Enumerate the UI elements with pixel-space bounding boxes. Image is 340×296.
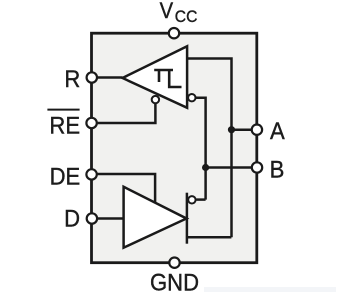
wire receiver input A: [187, 59, 231, 238]
pin DE: [86, 169, 96, 179]
svg-text:CC: CC: [175, 7, 198, 26]
wire R output: [92, 76, 123, 79]
svg-text:DE: DE: [50, 162, 81, 189]
receiver U1: [123, 46, 188, 108]
wire DE enable: [92, 174, 156, 204]
hysteresis symbol: [154, 70, 181, 87]
junction A: [228, 126, 235, 133]
pin B: [252, 162, 262, 172]
pin GND: [169, 258, 179, 268]
receiver enable bubble: [152, 96, 159, 103]
wire B pin: [206, 166, 257, 169]
junction B: [202, 164, 209, 171]
wire receiver input B: [195, 98, 205, 200]
wire driver bubble to B net: [196, 198, 205, 201]
wire D input: [92, 217, 124, 220]
pin A: [252, 125, 262, 135]
pin D: [87, 213, 97, 223]
wire A pin: [232, 128, 257, 131]
driver U2: [124, 187, 187, 248]
wire RE enable: [92, 101, 156, 123]
IC body outline: [92, 33, 257, 263]
pin R: [87, 72, 97, 82]
svg-text:A: A: [270, 117, 285, 144]
driver output bar: [186, 193, 189, 244]
pin RE: [86, 118, 96, 128]
svg-text:GND: GND: [150, 268, 199, 295]
svg-text:D: D: [64, 205, 80, 232]
svg-text:B: B: [270, 156, 285, 183]
pin Vcc: [169, 28, 179, 38]
svg-text:V: V: [160, 0, 173, 23]
overline RE: [47, 109, 79, 111]
svg-text:RE: RE: [49, 112, 80, 139]
driver B-output inverting bubble: [188, 196, 195, 203]
receiver B-input inverting bubble: [188, 94, 195, 101]
svg-text:R: R: [64, 65, 80, 92]
wire driver output to A: [187, 236, 232, 239]
